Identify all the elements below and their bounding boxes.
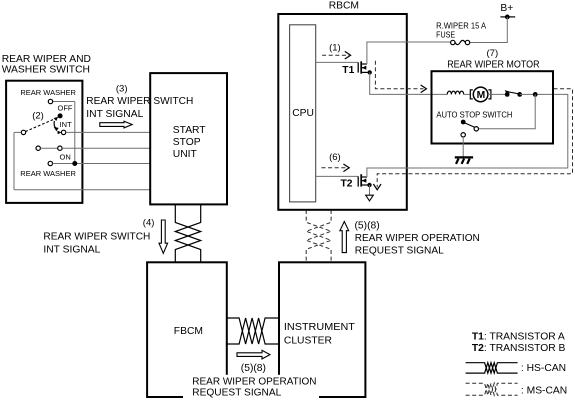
label R.WIPER 15 A FUSE — [436, 21, 487, 39]
block arrow right (5)(8) bottom — [237, 350, 270, 359]
legend HS-CAN symbol — [466, 363, 518, 373]
svg-text:(1): (1) — [329, 43, 341, 54]
svg-text:: MS-CAN: : MS-CAN — [521, 385, 567, 396]
svg-text:INT: INT — [60, 120, 73, 129]
svg-text:(7): (7) — [487, 48, 499, 59]
svg-text:(4): (4) — [143, 217, 155, 228]
ON row left contact — [36, 146, 40, 150]
svg-text:INT SIGNAL: INT SIGNAL — [43, 243, 100, 255]
svg-text:(5)(8): (5)(8) — [355, 220, 380, 231]
wire motor to stop switch — [488, 93, 505, 95]
MS-CAN twisted pair RBCM to instrument cluster (dashed) — [306, 210, 331, 262]
wire T1 source to motor — [370, 72, 448, 94]
svg-text:FBCM: FBCM — [174, 326, 203, 337]
rear washer upper contact — [48, 99, 52, 103]
wire coil to motor — [464, 93, 471, 95]
rear washer lower contact — [48, 161, 52, 165]
svg-text:(5)(8): (5)(8) — [241, 363, 266, 374]
fuse F1 — [451, 40, 470, 44]
wire CPU to T1 gate — [316, 61, 358, 63]
FBCM box — [147, 262, 227, 397]
wire T2 source to ground arrow — [369, 185, 371, 195]
transistor T2 — [358, 174, 371, 187]
transistor T1 — [358, 61, 372, 74]
svg-text:WASHER SWITCH: WASHER SWITCH — [2, 64, 90, 75]
RBCM box — [278, 14, 407, 210]
B+ terminal dot — [505, 15, 510, 20]
wire T2 drain riser to motor return — [367, 94, 568, 177]
svg-text:UNIT: UNIT — [173, 149, 198, 160]
rear wiper and washer switch title — [2, 54, 91, 75]
block arrow up (5)(8) — [340, 222, 349, 253]
svg-text:T2: TRANSISTOR B: T2: TRANSISTOR B — [472, 343, 566, 354]
block arrow right (3) — [100, 121, 132, 128]
svg-text:CLUSTER: CLUSTER — [284, 335, 332, 346]
HS-CAN twisted pair FBCM to instrument cluster — [227, 318, 279, 344]
svg-text:INSTRUMENT: INSTRUMENT — [284, 322, 356, 333]
stop switch contact left — [505, 92, 510, 97]
svg-text:ON: ON — [60, 153, 71, 162]
svg-text:REAR WIPER MOTOR: REAR WIPER MOTOR — [447, 60, 539, 71]
common contact — [21, 130, 25, 134]
chassis ground — [455, 157, 473, 164]
wire B+ to fuse — [470, 17, 508, 43]
svg-text:REAR WIPER OPERATION: REAR WIPER OPERATION — [192, 376, 316, 387]
dashed signal arrow (6) — [322, 164, 350, 172]
svg-text:REAR WASHER: REAR WASHER — [20, 169, 76, 178]
block arrow down (4) — [159, 220, 168, 253]
wire CPU to T2 gate — [316, 175, 358, 177]
svg-text:OFF: OFF — [58, 104, 73, 113]
instrument cluster box — [279, 262, 365, 397]
INT contact — [61, 130, 65, 134]
auto stop switch run contact (filled) — [461, 120, 466, 125]
rear wiper and washer switch box — [6, 81, 82, 203]
motor M1 — [470, 87, 491, 102]
junction dot motor return — [533, 92, 538, 97]
wire INT row to start stop unit — [66, 131, 150, 133]
svg-text:AUTO STOP SWITCH: AUTO STOP SWITCH — [436, 110, 512, 120]
start stop unit box U2 — [150, 73, 227, 204]
stop switch arm — [505, 90, 520, 94]
auto stop switch pivot contact — [474, 127, 478, 131]
svg-text:REAR WASHER: REAR WASHER — [20, 88, 76, 97]
label INSTRUMENT CLUSTER — [284, 322, 356, 346]
wire between ON contacts — [40, 147, 57, 149]
wire T1 drain riser to fuse line — [367, 42, 451, 64]
wiper arm tip arrowhead — [54, 117, 59, 121]
stop switch contact right — [517, 92, 522, 97]
svg-text:START: START — [173, 125, 207, 136]
svg-text:(3): (3) — [116, 84, 128, 95]
dashed flow T1 to motor — [375, 61, 426, 93]
wire ON row to start stop unit — [62, 147, 150, 149]
label REAR WIPER SWITCH (3) — [85, 94, 199, 107]
legend MS-CAN symbol (dashed) — [466, 383, 518, 395]
auto stop switch arm — [464, 123, 474, 128]
wire park contact to ground — [462, 137, 464, 157]
svg-text:T1: T1 — [342, 65, 354, 76]
svg-text:: HS-CAN: : HS-CAN — [521, 363, 566, 374]
svg-text:T2: T2 — [341, 178, 353, 189]
svg-text:CPU: CPU — [292, 108, 314, 119]
wiper arm (dashed) — [25, 119, 54, 132]
svg-text:REAR WIPER OPERATION: REAR WIPER OPERATION — [355, 233, 480, 244]
OFF contact (filled) — [58, 113, 63, 118]
wire junction to auto stop switch pivot — [479, 94, 536, 128]
common rail wire to start stop unit — [14, 189, 150, 191]
left rail wire down — [13, 132, 15, 189]
inductor coil — [447, 91, 463, 94]
svg-text:REAR WIPER AND: REAR WIPER AND — [2, 54, 91, 65]
junction rail to lower rear washer row — [72, 161, 77, 166]
svg-text:T1: TRANSISTOR A: T1: TRANSISTOR A — [472, 331, 565, 342]
B+ terminal bar — [500, 16, 515, 18]
HS-CAN twisted pair SSU to FBCM — [175, 205, 200, 263]
arc arrow OFF to INT — [54, 121, 62, 134]
label START STOP UNIT — [173, 125, 207, 160]
wire common to left rail — [14, 131, 21, 133]
wire rear washer upper contact to inner rail — [53, 101, 75, 103]
svg-text:REQUEST SIGNAL: REQUEST SIGNAL — [192, 388, 281, 399]
svg-text:M: M — [477, 90, 486, 101]
svg-text:REAR WIPER SWITCH: REAR WIPER SWITCH — [86, 95, 193, 107]
ground triangle at T2 — [366, 195, 374, 201]
dashed signal arrow (1) — [322, 51, 351, 59]
label REAR WIPER OPERATION bottom — [183, 375, 319, 399]
svg-text:REAR WIPER SWITCH: REAR WIPER SWITCH — [43, 231, 150, 243]
svg-text:FUSE: FUSE — [436, 31, 455, 40]
svg-text:(6): (6) — [329, 152, 341, 163]
ON row right contact — [58, 146, 62, 150]
svg-text:REQUEST SIGNAL: REQUEST SIGNAL — [355, 246, 444, 257]
svg-text:STOP: STOP — [173, 137, 201, 148]
wire lower rear washer row — [53, 163, 151, 165]
dashed flow motor to T2 — [373, 89, 572, 190]
svg-text:INT SIGNAL: INT SIGNAL — [86, 108, 143, 120]
auto stop switch park contact — [461, 133, 465, 137]
svg-text:B+: B+ — [500, 3, 513, 14]
svg-text:(2): (2) — [32, 111, 44, 122]
svg-text:R.WIPER 15 A: R.WIPER 15 A — [436, 21, 487, 30]
wire to junction — [520, 93, 536, 95]
CPU box — [290, 25, 316, 202]
inner rail wire — [74, 102, 76, 164]
svg-text:RBCM: RBCM — [329, 1, 359, 12]
rear wiper motor box — [432, 71, 554, 143]
